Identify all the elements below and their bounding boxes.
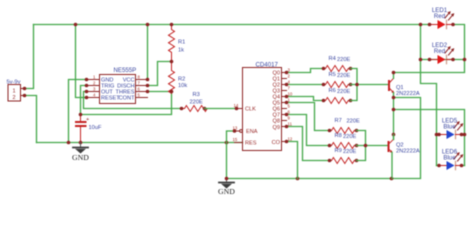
svg-text:R8: R8 bbox=[335, 133, 342, 139]
resistor R8 220E bbox=[330, 133, 357, 148]
CD4017 pin stub RES 15 bbox=[235, 142, 243, 144]
node R1/R2 junction bbox=[170, 60, 174, 64]
svg-text:R2: R2 bbox=[178, 76, 185, 82]
ground GND2 bbox=[218, 179, 235, 197]
LED6 Blue bbox=[437, 149, 465, 171]
wire R7-R9 right tie vertical bbox=[357, 131, 366, 161]
wire tie to Q2 base bbox=[357, 145, 388, 147]
node 555 left pin junctions bbox=[85, 78, 89, 82]
transistor Q1 2N2222A bbox=[388, 78, 420, 97]
wire bottom-left GND rail to RES pin bbox=[37, 142, 243, 144]
node bottom rail junctions bbox=[225, 177, 229, 181]
wire Q2 collector riser bbox=[393, 135, 395, 140]
wire tie to Q1 base bbox=[351, 84, 389, 86]
svg-text:RES: RES bbox=[245, 141, 257, 147]
svg-text:Blue: Blue bbox=[443, 155, 456, 162]
svg-text:7: 7 bbox=[288, 86, 291, 91]
wire 555 VCC to V+ rail bbox=[147, 25, 149, 80]
wire Q0 to R4 bbox=[287, 69, 324, 73]
svg-text:5v-9v: 5v-9v bbox=[7, 79, 21, 85]
node cap top junction bbox=[79, 113, 83, 117]
svg-text:5: 5 bbox=[138, 92, 141, 97]
svg-text:R1: R1 bbox=[178, 40, 185, 46]
svg-text:2: 2 bbox=[288, 74, 291, 79]
resistor R1 1k bbox=[169, 25, 186, 62]
capacitor C1 10uF polarized bbox=[75, 115, 102, 143]
resistor R7 220E bbox=[330, 118, 360, 133]
svg-text:10uF: 10uF bbox=[89, 125, 102, 131]
wire rail right segment down to collector line bbox=[394, 25, 465, 73]
wire Q7 to R8 bbox=[287, 115, 330, 146]
svg-text:Red: Red bbox=[434, 48, 445, 55]
svg-text:11: 11 bbox=[288, 122, 293, 127]
node R4-R6 lead junctions bbox=[322, 67, 326, 71]
svg-text:1: 1 bbox=[13, 89, 16, 95]
svg-text:R9: R9 bbox=[335, 148, 342, 154]
svg-text:2N2222A: 2N2222A bbox=[396, 148, 420, 154]
svg-text:6: 6 bbox=[138, 86, 141, 91]
wire top V+ rail bbox=[34, 24, 430, 26]
node junction conn pin1 bbox=[23, 87, 27, 91]
resistor R5 220E bbox=[324, 72, 351, 87]
node tie junction bbox=[364, 144, 368, 148]
svg-text:2: 2 bbox=[93, 80, 96, 85]
node junction conn pin2 bbox=[23, 94, 27, 98]
wire 555 THRES to R2 bottom bbox=[148, 91, 172, 93]
node CD4017 output pin junctions bbox=[285, 71, 289, 75]
LED1 Red bbox=[430, 7, 455, 29]
resistor R2 10k bbox=[169, 62, 188, 94]
wire LED5 row stubs bbox=[437, 134, 440, 136]
wire bottom rail 2 up to Q1 emitter bbox=[227, 98, 421, 179]
node Q1 area junctions bbox=[392, 71, 396, 75]
wire 555 TRIG riser to cap node bbox=[81, 86, 87, 115]
node GND rail junctions bbox=[67, 141, 71, 145]
svg-text:220E: 220E bbox=[337, 57, 350, 63]
wire Q2 to R5 bbox=[287, 84, 324, 86]
svg-text:2: 2 bbox=[13, 95, 16, 101]
wire LED anode branch vertical with jog to LED5/6 block bbox=[421, 25, 437, 166]
svg-text:R7: R7 bbox=[335, 118, 342, 124]
wire R4-R6 right tie vertical bbox=[351, 69, 358, 101]
transistor Q2 2N2222A bbox=[388, 139, 420, 154]
wire 555 DISCH riser to R1/R2 junction bbox=[148, 62, 172, 86]
node 555 right pin junctions bbox=[146, 78, 150, 82]
svg-text:10k: 10k bbox=[178, 83, 187, 89]
ground GND1 bbox=[72, 143, 89, 163]
resistor R9 220E bbox=[330, 148, 357, 163]
svg-text:220E: 220E bbox=[190, 100, 203, 106]
svg-text:Red: Red bbox=[434, 13, 445, 20]
svg-text:220E: 220E bbox=[337, 89, 350, 95]
wire LED2 row bbox=[421, 59, 465, 61]
svg-text:ENA: ENA bbox=[246, 129, 258, 135]
wire connector pin1 to V+ rail bbox=[25, 25, 34, 89]
resistor R4 220E bbox=[324, 56, 351, 71]
node rail junctions left bbox=[74, 23, 78, 27]
svg-text:R4: R4 bbox=[329, 56, 336, 62]
CD4017 pin stub CLK 14 bbox=[237, 108, 243, 110]
svg-text:GND: GND bbox=[218, 187, 235, 196]
svg-text:GND: GND bbox=[72, 153, 89, 162]
wire R3 to CLK bbox=[205, 108, 237, 110]
IC U2 CD4017 box bbox=[233, 62, 293, 151]
wire 555 GND pin to bottom rail bbox=[69, 80, 87, 143]
node R7-R9 lead junctions bbox=[328, 129, 332, 133]
555 pin stubs right 8-5 bbox=[136, 79, 148, 81]
IC U1 NE555P box bbox=[87, 67, 148, 104]
wire Q9 to R9 bbox=[287, 127, 330, 161]
svg-text:1k: 1k bbox=[178, 47, 184, 53]
wire Q1 collector stub bbox=[393, 73, 395, 79]
svg-text:Q9: Q9 bbox=[273, 125, 280, 131]
svg-text:3: 3 bbox=[93, 86, 96, 91]
svg-text:12: 12 bbox=[288, 137, 293, 142]
svg-text:4: 4 bbox=[93, 92, 96, 97]
node LED6 lead junctions bbox=[437, 164, 441, 168]
svg-text:1: 1 bbox=[93, 74, 96, 79]
svg-text:+: + bbox=[86, 117, 89, 123]
node R3 junctions bbox=[180, 107, 184, 111]
svg-text:7: 7 bbox=[138, 80, 141, 85]
wire Q2 collector node branch to LED cathode vertical bbox=[394, 110, 465, 166]
wire Q5 to R7 bbox=[287, 103, 330, 131]
wire Q1 emitter down to Q2 collector bbox=[393, 93, 395, 140]
CD4017 pin stub ENA 13 with bubble bbox=[240, 130, 243, 133]
wire CO to bottom rail bbox=[287, 142, 298, 179]
wire ENA to GND drop bbox=[227, 131, 235, 179]
svg-text:CO: CO bbox=[272, 140, 281, 146]
wire 555 RESET riser to V+ rail bbox=[76, 25, 87, 98]
svg-text:Q8: Q8 bbox=[273, 119, 280, 125]
svg-text:NE555P: NE555P bbox=[114, 67, 137, 74]
svg-text:9: 9 bbox=[288, 116, 291, 121]
svg-text:CD4017: CD4017 bbox=[256, 62, 279, 69]
svg-text:CONT: CONT bbox=[119, 96, 135, 102]
wire connector pin2 to GND rail bbox=[25, 96, 37, 143]
node LED2 lead junctions bbox=[428, 58, 432, 62]
wire 555 OUT to R3 row bbox=[84, 92, 182, 109]
resistor R6 220E bbox=[324, 88, 351, 103]
svg-text:2N2222A: 2N2222A bbox=[396, 91, 420, 97]
svg-text:15: 15 bbox=[233, 137, 238, 142]
node CLK pin junction bbox=[235, 107, 239, 111]
svg-text:R6: R6 bbox=[329, 88, 336, 94]
svg-text:220E: 220E bbox=[337, 73, 350, 79]
svg-text:Blue: Blue bbox=[443, 124, 456, 131]
svg-text:220E: 220E bbox=[343, 149, 356, 155]
LED2 Red bbox=[430, 42, 455, 64]
svg-text:RESET: RESET bbox=[101, 96, 120, 102]
node LED branch junctions bbox=[419, 23, 423, 27]
node ENA stub junction bbox=[233, 129, 237, 133]
node LED5 row junctions bbox=[435, 133, 439, 137]
svg-text:5: 5 bbox=[288, 104, 291, 109]
wire R2 bottom down and left to cap node bbox=[81, 92, 172, 115]
svg-text:8: 8 bbox=[138, 74, 141, 79]
svg-text:R5: R5 bbox=[329, 72, 336, 78]
svg-text:10: 10 bbox=[288, 92, 293, 97]
node R2 bottom/THRES junction bbox=[170, 90, 174, 94]
connector J1 5v-9v bbox=[7, 79, 25, 101]
svg-text:CLK: CLK bbox=[245, 107, 256, 113]
wire Q2 emitter to bottom rail bbox=[391, 152, 393, 178]
svg-text:220E: 220E bbox=[347, 119, 360, 125]
node tie junction bbox=[355, 83, 359, 87]
555 pin stubs left 1-4 bbox=[87, 79, 100, 81]
svg-text:R3: R3 bbox=[193, 92, 200, 98]
svg-text:220E: 220E bbox=[343, 134, 356, 140]
resistor R3 220E bbox=[182, 92, 208, 112]
wire Q4 to R6 bbox=[287, 97, 324, 101]
LED5 Blue bbox=[439, 118, 463, 140]
CD4017 right pin stubs Q0-Q9, CO bbox=[282, 72, 287, 74]
node LED1 lead junctions bbox=[428, 23, 432, 27]
